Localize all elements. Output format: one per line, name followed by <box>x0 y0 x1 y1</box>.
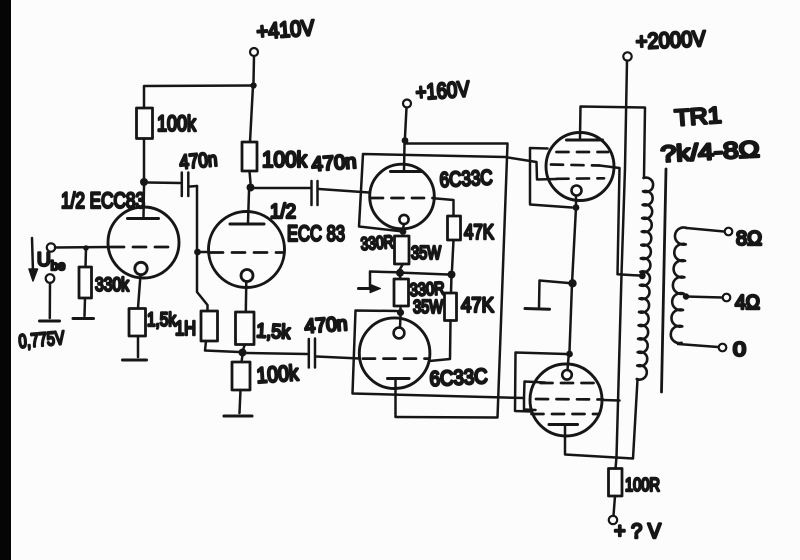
capacitor 470n (C3 coupling to lower 6C33C) <box>246 353 307 354</box>
resistor 100k (V1a plate load) <box>137 108 153 139</box>
wire lower output plate to primary bottom <box>565 380 638 459</box>
svg-text:1H: 1H <box>175 318 196 340</box>
wire C1 to V1b grid and 1H <box>197 186 208 311</box>
wire plate lead V1b <box>248 191 249 223</box>
transformer core <box>662 169 667 392</box>
svg-text:470n: 470n <box>179 149 219 174</box>
svg-text:1/2: 1/2 <box>270 201 296 223</box>
svg-text:+160V: +160V <box>415 76 471 105</box>
output tube lower (triode) with cathode circle <box>530 364 602 436</box>
resistor 47K (lower) with wire to grid line <box>450 275 453 294</box>
wire frame lower 6C33C cathode to lower output tube grid <box>353 311 546 399</box>
svg-text:0: 0 <box>733 339 746 361</box>
wire upper output grid2 to primary center tap <box>600 166 640 276</box>
svg-text:47K: 47K <box>464 221 494 244</box>
label +410V <box>250 48 258 56</box>
resistor 100R with label <box>609 469 623 497</box>
node V1b grid tee <box>194 249 201 256</box>
terminal +410V supply <box>252 57 255 83</box>
wire cathode bus down with junction <box>572 208 576 284</box>
svg-text:8Ω: 8Ω <box>736 228 762 250</box>
cathode circle upper 6C33C with junction node <box>399 215 408 224</box>
svg-text:0,775V: 0,775V <box>18 328 66 353</box>
cathode circle V1b <box>241 270 253 282</box>
node V1b plate junction <box>247 184 255 192</box>
node 330k tee <box>83 245 89 251</box>
svg-text:Ube: Ube <box>37 250 65 273</box>
svg-text:330k: 330k <box>95 275 129 296</box>
svg-text:6C33C: 6C33C <box>439 166 493 192</box>
tap 8 ohm <box>687 228 725 232</box>
svg-text:100k: 100k <box>256 360 301 388</box>
svg-text:100R: 100R <box>625 475 660 495</box>
wire frame upper 6C33C cathode to upper output tube grid <box>359 154 557 232</box>
node V1b cathode network junction <box>239 349 247 357</box>
ground arrow (330R midpoint) <box>370 272 396 288</box>
resistor 330R 35W (lower) with labels and node <box>399 276 402 279</box>
ground (below V1a 1,5k) <box>123 359 147 362</box>
wire C-frame lower output tube <box>515 353 566 412</box>
tap 4 ohm <box>683 293 689 299</box>
svg-text:1,5k: 1,5k <box>256 320 292 344</box>
cathode circle V1a <box>135 262 147 274</box>
cathode junction upper output tube <box>575 196 578 205</box>
ground (below 330k) <box>73 317 94 320</box>
svg-text:+2000V: +2000V <box>635 26 706 54</box>
wire +160V rail down to lower 6C33C plate <box>396 144 508 418</box>
resistor 47K (upper) with junction node <box>448 216 461 240</box>
svg-text:+410V: +410V <box>256 15 316 44</box>
svg-text:1/2 ECC83: 1/2 ECC83 <box>61 188 145 213</box>
node primary center tap <box>639 272 646 279</box>
node +410V rail junction <box>250 82 256 88</box>
svg-text:35W: 35W <box>413 297 443 317</box>
transformer primary winding <box>637 178 653 380</box>
ground (below grid leak 100k) <box>224 414 252 417</box>
wire grid V1a <box>55 246 110 249</box>
svg-text:4Ω: 4Ω <box>735 292 760 314</box>
wire lower output grid2 stub <box>603 399 620 402</box>
wire 330R junction to 47K junction <box>404 273 449 275</box>
svg-text:1,5k: 1,5k <box>147 310 176 331</box>
wire C-frame upper output tube <box>530 148 572 208</box>
wire 100k to V1a plate node <box>143 139 146 179</box>
svg-text:330R: 330R <box>360 232 394 254</box>
wire plate lead V2 <box>403 144 406 172</box>
svg-text:470n: 470n <box>311 151 357 176</box>
wire upper 6C33C grid line to 47K <box>434 198 454 216</box>
terminal input <box>47 243 55 251</box>
output tube upper (triode) <box>546 133 614 201</box>
svg-text:?k/4-8Ω: ?k/4-8Ω <box>660 136 760 167</box>
arrow and label Ube input <box>32 238 33 272</box>
svg-text:6C33C: 6C33C <box>429 365 488 391</box>
tube lower 6C33C with cathode circle and plate <box>359 318 430 389</box>
tap 0 <box>678 344 718 347</box>
capacitor 470n (C1 coupling V1a to V1b) <box>148 181 180 184</box>
wire upper output plate to primary top <box>580 107 645 178</box>
wire plate lead V1a <box>142 186 145 217</box>
triode V1a 1/2 ECC83 <box>108 207 179 278</box>
transformer secondary winding <box>671 227 687 343</box>
terminal input lower with ground and 0,775V label <box>46 274 55 283</box>
wire V1b grid stub <box>198 251 210 254</box>
resistor 100k (V1b plate load) with feed wire <box>250 86 253 143</box>
resistor 330R 35W (upper) with labels and node <box>395 236 410 264</box>
capacitor 470n (C2 coupling V1b to upper 6C33C) <box>254 187 310 190</box>
ground step (cathode bus) <box>539 281 569 308</box>
node V1a plate junction <box>140 178 148 186</box>
svg-text:ECC 83: ECC 83 <box>287 221 345 246</box>
resistor 330k <box>84 248 87 267</box>
resistor 1,5k (V1a cathode) with leads <box>138 275 141 308</box>
svg-text:100k: 100k <box>157 111 197 136</box>
triode V1b 1/2 ECC83 <box>209 212 285 288</box>
resistor 100k (grid leak) with leads <box>242 355 243 362</box>
svg-text:100k: 100k <box>262 147 308 172</box>
svg-text:470n: 470n <box>304 313 348 338</box>
tube upper 6C33C <box>370 164 435 229</box>
svg-text:TR1: TR1 <box>674 102 723 131</box>
svg-text:47K: 47K <box>461 294 494 317</box>
inductor 1H with bottom wire <box>201 311 218 341</box>
svg-text:35W: 35W <box>411 243 441 263</box>
svg-text:+ ? V: + ? V <box>614 520 661 543</box>
wire cathode bus to lower output cathode node <box>570 284 573 352</box>
resistor 1,5k (V1b cathode) with leads <box>245 282 248 313</box>
